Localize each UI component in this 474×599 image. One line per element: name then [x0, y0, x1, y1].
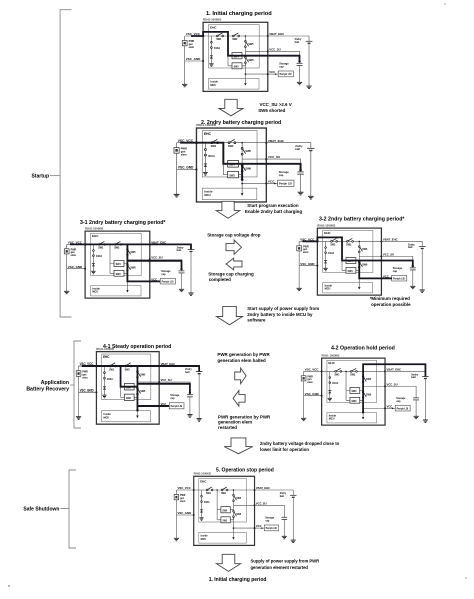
svg-text:lower limit for operation: lower limit for operation [260, 447, 309, 452]
svg-text:R5H1-1000KB: R5H1-1000KB [194, 472, 211, 476]
capacitor C1 storage cap C3-1 stage3-1 [179, 270, 185, 272]
pin dot VSC_VCC C3-1 stage3-1 [84, 243, 86, 245]
switch SW1 C4-2 stage4-2 [335, 371, 337, 373]
wire VCC internal C4-1 stage4-1 [137, 405, 159, 407]
pin dot VCC_SU C2 stage2 [265, 158, 267, 160]
ground (PWR gen elem) C4-2 stage4-2 [301, 418, 306, 420]
wire D10A branch C5 stage5 [201, 490, 203, 518]
wire down to external ground C2 stage2 [176, 169, 178, 194]
PWR generation element symbol C4-1 stage4-1 [76, 371, 81, 377]
IC U-C2 stage2 (EHC charger) body [196, 128, 266, 202]
switch contact lower D10A col C1 stage1 [211, 47, 213, 49]
ground (battery) C3-1 stage3-1 [188, 293, 193, 295]
ground (internal, D10A) C4-2 stage4-2 [328, 398, 332, 400]
svg-text:SW1: SW1 [330, 244, 336, 246]
svg-text:SW6: SW6 [248, 59, 254, 62]
junction dot bus/column A C4-1 stage4-1 [120, 365, 122, 367]
svg-text:generation element restarted: generation element restarted [251, 565, 309, 570]
ground (storage cap) C4-2 stage4-2 [413, 416, 418, 418]
switch contact upper D10A col C3-1 stage3-1 [93, 250, 95, 252]
wire VCC_SU to storage cap C4-1 stage4-1 [159, 382, 190, 394]
capacitor C1 storage cap C4-1 stage4-1 [187, 394, 193, 396]
wire internal top bus C1 stage1 [203, 35, 268, 37]
capacitor C1 storage cap C4-2 stage4-2 [413, 397, 419, 399]
svg-text:software: software [247, 318, 266, 323]
pin dot VBAT_EHC C4-2 stage4-2 [384, 370, 386, 372]
wire D10A branch C4-2 stage4-2 [329, 371, 331, 398]
svg-text:SW4: SW4 [352, 390, 358, 393]
svg-text:Storage cap voltage drop: Storage cap voltage drop [207, 233, 261, 238]
svg-text:VCC_SU: VCC_SU [383, 252, 394, 256]
svg-text:R5H1-1000KB: R5H1-1000KB [322, 353, 340, 357]
svg-text:SW5: SW5 [366, 379, 372, 381]
junction dot on bold path C3-2 stage3-2 [316, 240, 318, 242]
svg-text:Periph LSI: Periph LSI [279, 182, 292, 186]
junction dot bus/column A C3-1 stage3-1 [109, 244, 111, 246]
Inside MCU block C2 stage2 [202, 188, 257, 199]
ground (internal, D10A) C1 stage1 [209, 64, 213, 67]
junction dot bus/column B C4-2 stage4-2 [362, 371, 364, 373]
switch SW4 (block style) C4-1 stage4-1 [121, 386, 138, 388]
svg-text:MCU: MCU [329, 418, 335, 421]
wire VCC_SU internal C4-2 stage4-2 [363, 385, 385, 387]
switch contact upper D10A col C5 stage5 [201, 495, 203, 497]
wire D10A branch C3-1 stage3-1 [92, 244, 94, 271]
ground (battery) C4-2 stage4-2 [423, 420, 428, 422]
svg-text:batt: batt [411, 376, 416, 379]
junction dot on bold path C4-1 stage4-1 [95, 365, 97, 368]
svg-text:SW3: SW3 [348, 271, 354, 273]
switch contact upper D10A col C3-2 stage3-2 [325, 247, 327, 249]
junction dot on bold path C3-1 stage3-1 [180, 268, 182, 270]
capacitor C1 storage cap C2 stage2 [297, 171, 303, 173]
pin dot VCC_SU C3-2 stage3-2 [380, 255, 382, 257]
wire column A C1 stage1 [227, 36, 229, 66]
pin dot VBAT_EHC C2 stage2 [265, 142, 267, 144]
PWR generation element symbol C3-1 stage3-1 [64, 249, 69, 254]
wire bold current path 1 C2 stage2 [180, 143, 300, 170]
wire bold current path 3 C3-1 stage3-1 [127, 261, 181, 269]
svg-text:SW6 shorted: SW6 shorted [258, 108, 285, 113]
switch SW6 C1 stage1 [245, 56, 247, 58]
diode D10A C5 stage5 [200, 510, 203, 513]
junction dot VCC wire C3-1 stage3-1 [157, 281, 159, 282]
wire column B C2 stage2 [241, 143, 243, 195]
analog block inner box C4-1 stage4-1 [102, 354, 151, 400]
wire column B C4-2 stage4-2 [362, 371, 364, 418]
pin dot VSC_GND C4-2 stage4-2 [321, 395, 323, 397]
ground (storage cap) C3-1 stage3-1 [179, 289, 184, 291]
wire column A C5 stage5 [216, 490, 218, 520]
svg-text:generation elem halted: generation elem halted [217, 358, 266, 363]
IC U-C3-1 stage3-1 (EHC charger) body [85, 231, 150, 298]
label Safe Shutdown [61, 508, 70, 510]
ground (PWR gen elem) C5 stage5 [174, 538, 179, 541]
label Application Battery Recovery [70, 384, 74, 386]
ground (battery) C5 stage5 [291, 540, 296, 543]
bracket Application phase [74, 341, 81, 428]
switch SW4 (block style) C5 stage5 [217, 509, 233, 511]
IC U-C4-2 stage4-2 (EHC charger) body [322, 358, 385, 425]
wire VSC_VCC to IC pin C3-2 stage3-2 [299, 240, 317, 242]
circuit C5 stage5 [174, 472, 297, 546]
svg-text:SW6: SW6 [366, 395, 372, 397]
ground (storage cap) C2 stage2 [298, 192, 304, 195]
wire VCC_SU internal C4-1 stage4-1 [137, 381, 159, 383]
junction dot bus/column A C3-2 stage3-2 [341, 241, 343, 243]
Inside MCU block C3-2 stage3-2 [323, 283, 373, 293]
switch SW6 C4-1 stage4-1 [137, 387, 139, 389]
svg-text:1. Initial charging period: 1. Initial charging period [206, 11, 272, 17]
switch SW3 (block style) C2 stage2 [223, 172, 242, 175]
wire PWR elem to VSC_GND C3-1 stage3-1 [66, 254, 68, 269]
svg-text:D10A: D10A [214, 47, 220, 50]
svg-text:VSC_GND: VSC_GND [80, 388, 95, 392]
svg-text:SW6: SW6 [130, 267, 136, 270]
wire internal top bus C3-1 stage3-1 [85, 243, 150, 245]
switch SW1 C5 stage5 [206, 489, 208, 491]
pin dot VCC C4-1 stage4-1 [158, 405, 160, 407]
svg-text:operation possible: operation possible [371, 302, 411, 307]
svg-text:SW3: SW3 [126, 398, 131, 400]
arrowhead into Inside MCU C4-2 stage4-2 [362, 417, 365, 419]
ground (PWR gen elem) C4-1 stage4-1 [76, 417, 81, 420]
wire PWR elem to VSC_VCC C5 stage5 [175, 490, 177, 495]
pin dot VSC_VCC C3-2 stage3-2 [316, 240, 318, 242]
wire VCC to peripheral LSI C2 stage2 [266, 182, 277, 184]
svg-text:D10A: D10A [204, 501, 210, 504]
battery BT1 2ndry batt C1 stage1 [306, 40, 313, 42]
wire down to external ground C4-2 stage4-2 [303, 396, 305, 419]
diode D10A C2 stage2 [204, 164, 207, 167]
wire column A C4-2 stage4-2 [345, 371, 347, 400]
junction dot VCC wire C4-1 stage4-1 [166, 405, 167, 407]
svg-text:elem: elem [307, 382, 312, 384]
wire column B C1 stage1 [244, 36, 246, 84]
ground (internal, D10A) C5 stage5 [199, 518, 203, 521]
svg-text:restarted: restarted [218, 425, 237, 430]
svg-text:SW2: SW2 [221, 493, 227, 495]
switch SW5 C5 stage5 [233, 494, 235, 496]
switch SW4 (block style) C2 stage2 [223, 163, 242, 165]
svg-text:3-1 2ndry battery charging per: 3-1 2ndry battery charging period* [80, 220, 166, 226]
arrowhead into Inside MCU C5 stage5 [232, 537, 234, 539]
svg-text:MCU: MCU [325, 288, 331, 291]
pin dot VSC_GND C5 stage5 [193, 514, 195, 516]
svg-text:batt: batt [408, 246, 413, 249]
svg-text:VCC: VCC [268, 180, 275, 184]
circuit C4-1 stage4-1 [76, 347, 202, 424]
switch SW3 (block style) C5 stage5 [217, 517, 233, 520]
pin dot VSC_VCC C1 stage1 [202, 35, 204, 37]
pin dot VBAT_EHC C3-1 stage3-1 [149, 243, 151, 245]
svg-text:SW1: SW1 [211, 144, 217, 148]
wire bold current path 1 C1 stage1 [191, 32, 300, 62]
svg-text:VSC_GND: VSC_GND [305, 392, 319, 396]
svg-text:cap: cap [170, 397, 175, 400]
wire VSC_VCC to IC pin C3-1 stage3-1 [67, 243, 85, 245]
junction dot VCC wire C1 stage1 [275, 73, 277, 75]
pin dot VCC C5 stage5 [254, 527, 256, 529]
junction dot column B / VCC C1 stage1 [245, 73, 247, 75]
svg-text:SW5: SW5 [362, 249, 368, 251]
switch SW3 (block style) C4-2 stage4-2 [346, 398, 363, 401]
ground (internal, D10A) C4-1 stage4-1 [102, 395, 106, 398]
svg-text:Safe Shutdown: Safe Shutdown [23, 507, 59, 513]
svg-text:SW3: SW3 [229, 174, 235, 177]
wire D10A branch C2 stage2 [204, 143, 206, 173]
svg-text:VCC_SU: VCC_SU [161, 378, 172, 382]
IC U-C3-2 stage3-2 (EHC charger) body [317, 228, 381, 295]
wire column B C3-2 stage3-2 [358, 241, 360, 288]
flow arrow stage5 to stage1 [216, 554, 240, 571]
scan speck bottom right [465, 577, 467, 579]
wire column B C5 stage5 [232, 490, 234, 538]
battery BT1 2ndry batt C4-1 stage4-1 [196, 371, 203, 373]
wire D10A branch C1 stage1 [210, 36, 212, 64]
svg-text:EHC: EHC [204, 132, 212, 136]
junction dot column B / VCC C4-2 stage4-2 [362, 408, 364, 410]
wire VCC to peripheral LSI C5 stage5 [255, 527, 265, 529]
svg-text:Periph LSI: Periph LSI [162, 280, 174, 283]
analog block inner box C3-2 stage3-2 [323, 230, 373, 272]
svg-text:EHC: EHC [92, 234, 99, 238]
svg-text:SW4: SW4 [222, 509, 227, 512]
svg-text:Start program execution: Start program execution [247, 203, 299, 208]
svg-text:Battery Recovery: Battery Recovery [26, 387, 69, 393]
wire VSC_GND to IC pin C3-2 stage3-2 [299, 265, 317, 267]
svg-text:batt: batt [295, 41, 300, 44]
pin dot VBAT_EHC C5 stage5 [254, 489, 256, 491]
wire bold current path 2 C3-1 stage3-1 [127, 244, 160, 281]
svg-text:Periph LSI: Periph LSI [397, 408, 409, 410]
switch SW3 (block style) C3-2 stage3-2 [342, 268, 359, 271]
pin dot VSC_GND C1 stage1 [202, 60, 204, 62]
peripheral LSI block C3-2 stage3-2 [392, 275, 407, 281]
IC U-C1 stage1 (EHC charger) body [203, 22, 268, 91]
wire VSC_VCC to IC pin C4-2 stage4-2 [304, 370, 322, 372]
wire VSC_VCC to IC pin C5 stage5 [176, 489, 193, 491]
wire VCC_SU internal C5 stage5 [233, 504, 254, 506]
PWR generation element symbol C2 stage2 [174, 148, 179, 154]
bracket Safe Shutdown phase [69, 470, 76, 548]
svg-text:gen: gen [303, 249, 308, 251]
wire VSC_GND to IC pin C2 stage2 [177, 168, 197, 170]
junction dot column B / VCC C2 stage2 [241, 183, 243, 185]
wire PWR elem to VSC_VCC C2 stage2 [176, 143, 178, 148]
wire VBAT_EHC to battery C2 stage2 [266, 143, 310, 149]
peripheral LSI block C4-1 stage4-1 [169, 403, 184, 409]
ground (PWR gen elem) C2 stage2 [174, 194, 180, 197]
analog block inner box C3-1 stage3-1 [91, 233, 142, 275]
wire bold current path 1 C3-2 stage3-2 [302, 237, 412, 266]
switch SW6 C3-2 stage3-2 [358, 261, 360, 263]
junction dot bus/column A C5 stage5 [216, 489, 218, 491]
svg-text:cap: cap [265, 519, 270, 522]
pin dot VCC C1 stage1 [267, 73, 269, 75]
wire column A C2 stage2 [222, 143, 224, 175]
pin dot VCC C4-2 stage4-2 [384, 407, 386, 409]
svg-text:VCC_SU: VCC_SU [268, 155, 280, 159]
analog block inner box C5 stage5 [199, 479, 247, 522]
capacitor C1 storage cap C3-2 stage3-2 [410, 267, 416, 269]
switch contact lower D10A col C5 stage5 [201, 501, 203, 503]
wire VCC_SU to storage cap C4-2 stage4-2 [385, 386, 416, 397]
svg-text:SW6: SW6 [362, 265, 368, 267]
wire VBAT_EHC to battery C1 stage1 [268, 36, 309, 41]
svg-text:R5H1-1000KB: R5H1-1000KB [85, 227, 103, 231]
svg-text:SW2: SW2 [228, 144, 234, 148]
svg-text:elem: elem [181, 152, 188, 156]
switch SW3 (block style) C4-1 stage4-1 [121, 394, 138, 397]
diode D10A C4-1 stage4-1 [103, 387, 106, 390]
junction dot column B / VCC C5 stage5 [233, 527, 235, 529]
wire PWR elem to VSC_GND C4-2 stage4-2 [303, 381, 305, 396]
svg-text:MCU: MCU [103, 415, 109, 419]
svg-text:VSC_GND: VSC_GND [300, 262, 314, 266]
junction dot on bold path C2 stage2 [299, 169, 302, 172]
pin dot VCC_SU C3-1 stage3-1 [149, 258, 151, 260]
switch SW6 C5 stage5 [233, 510, 235, 512]
svg-text:SW5: SW5 [130, 251, 136, 254]
svg-text:VSC_VCC: VSC_VCC [305, 368, 320, 372]
PWR generation element symbol C1 stage1 [182, 41, 187, 46]
junction dot bus/column A C2 stage2 [222, 142, 224, 144]
svg-text:D10A: D10A [208, 154, 215, 158]
wire VCC internal C1 stage1 [245, 73, 267, 75]
switch SW1 C3-2 stage3-2 [331, 241, 333, 243]
pin dot VCC_SU C1 stage1 [267, 50, 269, 52]
switch SW6 C4-2 stage4-2 [362, 391, 364, 393]
junction dot bus/column A C4-2 stage4-2 [345, 371, 347, 373]
junction dot bus/column B C2 stage2 [241, 142, 243, 144]
wire PWR elem to VSC_VCC C4-1 stage4-1 [78, 366, 80, 371]
svg-text:VCC_SU: VCC_SU [256, 501, 267, 505]
circuit C2 stage2 [174, 123, 315, 202]
scan speck top right [444, 3, 446, 5]
switch SW5 C1 stage1 [245, 40, 247, 42]
pin dot VCC_SU C5 stage5 [254, 504, 256, 506]
switch contact lower D10A col C4-2 stage4-2 [329, 382, 331, 384]
svg-text:Startup: Startup [32, 174, 50, 180]
circuit C3-2 stage3-2 [296, 223, 425, 295]
pin dot VSC_GND C3-1 stage3-1 [84, 268, 86, 270]
junction dot VCC wire C3-2 stage3-2 [388, 278, 389, 279]
svg-text:SW2: SW2 [114, 247, 120, 250]
svg-text:Start supply of power supply f: Start supply of power supply from [247, 306, 319, 311]
battery BT1 2ndry batt C2 stage2 [307, 147, 314, 149]
switch SW2 C3-1 stage3-1 [114, 244, 116, 246]
ground (storage cap) C3-2 stage3-2 [410, 286, 415, 288]
wire VSC_VCC to IC pin C2 stage2 [177, 142, 197, 144]
junction dot VCC wire C4-2 stage4-2 [392, 408, 393, 409]
svg-text:SW2: SW2 [350, 374, 356, 376]
analog block inner box C1 stage1 [209, 25, 260, 68]
svg-text:Application: Application [41, 380, 69, 386]
switch contact upper D10A col C1 stage1 [211, 41, 213, 43]
junction dot bus/column B C3-2 stage3-2 [358, 241, 360, 243]
wire VCC internal C2 stage2 [242, 182, 266, 184]
diode D10A C3-2 stage3-2 [324, 261, 327, 264]
svg-text:VBAT_EHC: VBAT_EHC [387, 368, 402, 372]
switch SW2 C4-2 stage4-2 [350, 371, 352, 373]
switch contact lower D10A col C3-1 stage3-1 [93, 255, 95, 257]
svg-text:MCU: MCU [204, 193, 210, 197]
junction dot bus/column A C1 stage1 [227, 35, 229, 37]
pin dot VSC_VCC C4-1 stage4-1 [95, 365, 97, 367]
wire bold current path 1 C4-2 stage4-2 [363, 364, 425, 412]
svg-text:SW5: SW5 [236, 498, 242, 500]
wire VSC_GND to IC pin C5 stage5 [176, 514, 193, 516]
Inside MCU block C3-1 stage3-1 [91, 286, 142, 296]
Inside MCU block C4-2 stage4-2 [327, 413, 376, 423]
circuit C4-2 stage4-2 [301, 353, 429, 425]
junction dot on bold path C4-1 stage4-1 [189, 392, 191, 395]
pin dot VBAT_EHC C3-2 stage3-2 [380, 240, 382, 242]
pin dot VSC_VCC C4-2 stage4-2 [321, 370, 323, 372]
switch SW4 (block style) C1 stage1 [228, 55, 245, 57]
flow arrow stage3-2 to stage3-1 [226, 258, 242, 270]
svg-text:SW6: SW6 [245, 166, 251, 170]
arrowhead into Inside MCU C4-1 stage4-1 [136, 416, 139, 419]
switch contact upper D10A col C4-2 stage4-2 [329, 377, 331, 379]
svg-text:D10A: D10A [107, 378, 113, 381]
junction dot on bold path C4-2 stage4-2 [362, 411, 364, 413]
wire VCC internal C3-1 stage3-1 [127, 280, 149, 282]
wire VBAT_EHC to battery C4-1 stage4-1 [159, 366, 199, 372]
wire PWR elem to VSC_VCC C1 stage1 [184, 36, 186, 41]
IC U-C4-1 stage4-1 (EHC charger) body [96, 352, 159, 425]
svg-text:D10A: D10A [96, 255, 102, 258]
switch SW3 (block style) C1 stage1 [228, 63, 245, 66]
bracket Startup phase [60, 10, 71, 317]
label Startup [50, 175, 60, 177]
svg-text:elem: elem [180, 501, 185, 503]
svg-text:VBAT_EHC: VBAT_EHC [383, 238, 398, 242]
svg-text:SW4: SW4 [116, 263, 122, 266]
wire VCC internal C5 stage5 [233, 527, 254, 529]
wire bold current path 4 C4-1 stage4-1 [137, 384, 189, 393]
svg-text:MCU: MCU [92, 290, 98, 294]
svg-text:PWR generation by PWR: PWR generation by PWR [217, 352, 270, 357]
svg-text:Periph LSI: Periph LSI [266, 528, 277, 530]
wire D10A branch C3-2 stage3-2 [325, 241, 327, 268]
svg-text:elem: elem [303, 252, 308, 254]
scan speck bottom left [8, 585, 10, 587]
switch SW5 C2 stage2 [241, 147, 243, 149]
wire VBAT_EHC to battery C3-1 stage3-1 [150, 244, 191, 249]
battery BT1 2ndry batt C4-2 stage4-2 [422, 376, 429, 378]
junction dot on bold path C1 stage1 [202, 35, 204, 37]
switch SW2 C3-2 stage3-2 [346, 241, 348, 243]
switch SW1 C3-1 stage3-1 [98, 244, 100, 246]
svg-text:VBAT_EHC: VBAT_EHC [269, 32, 284, 36]
svg-text:cap: cap [279, 65, 284, 68]
svg-text:2ndry battery to inside MCU by: 2ndry battery to inside MCU by [247, 312, 313, 317]
wire VSC_GND to IC pin C1 stage1 [185, 60, 203, 62]
wire VBAT_EHC to battery C5 stage5 [255, 490, 294, 495]
peripheral LSI block C3-1 stage3-1 [160, 278, 175, 284]
svg-text:SW2: SW2 [232, 38, 238, 41]
svg-text:VCC: VCC [387, 404, 393, 408]
svg-text:4-2 Operation hold period: 4-2 Operation hold period [331, 346, 395, 352]
svg-text:SW3: SW3 [234, 66, 240, 68]
svg-text:SW3: SW3 [116, 274, 122, 276]
switch SW1 C1 stage1 [216, 35, 218, 37]
capacitor C1 storage cap C1 stage1 [297, 62, 303, 64]
pin dot VSC_VCC C5 stage5 [193, 489, 195, 491]
svg-text:PWR: PWR [307, 376, 313, 378]
